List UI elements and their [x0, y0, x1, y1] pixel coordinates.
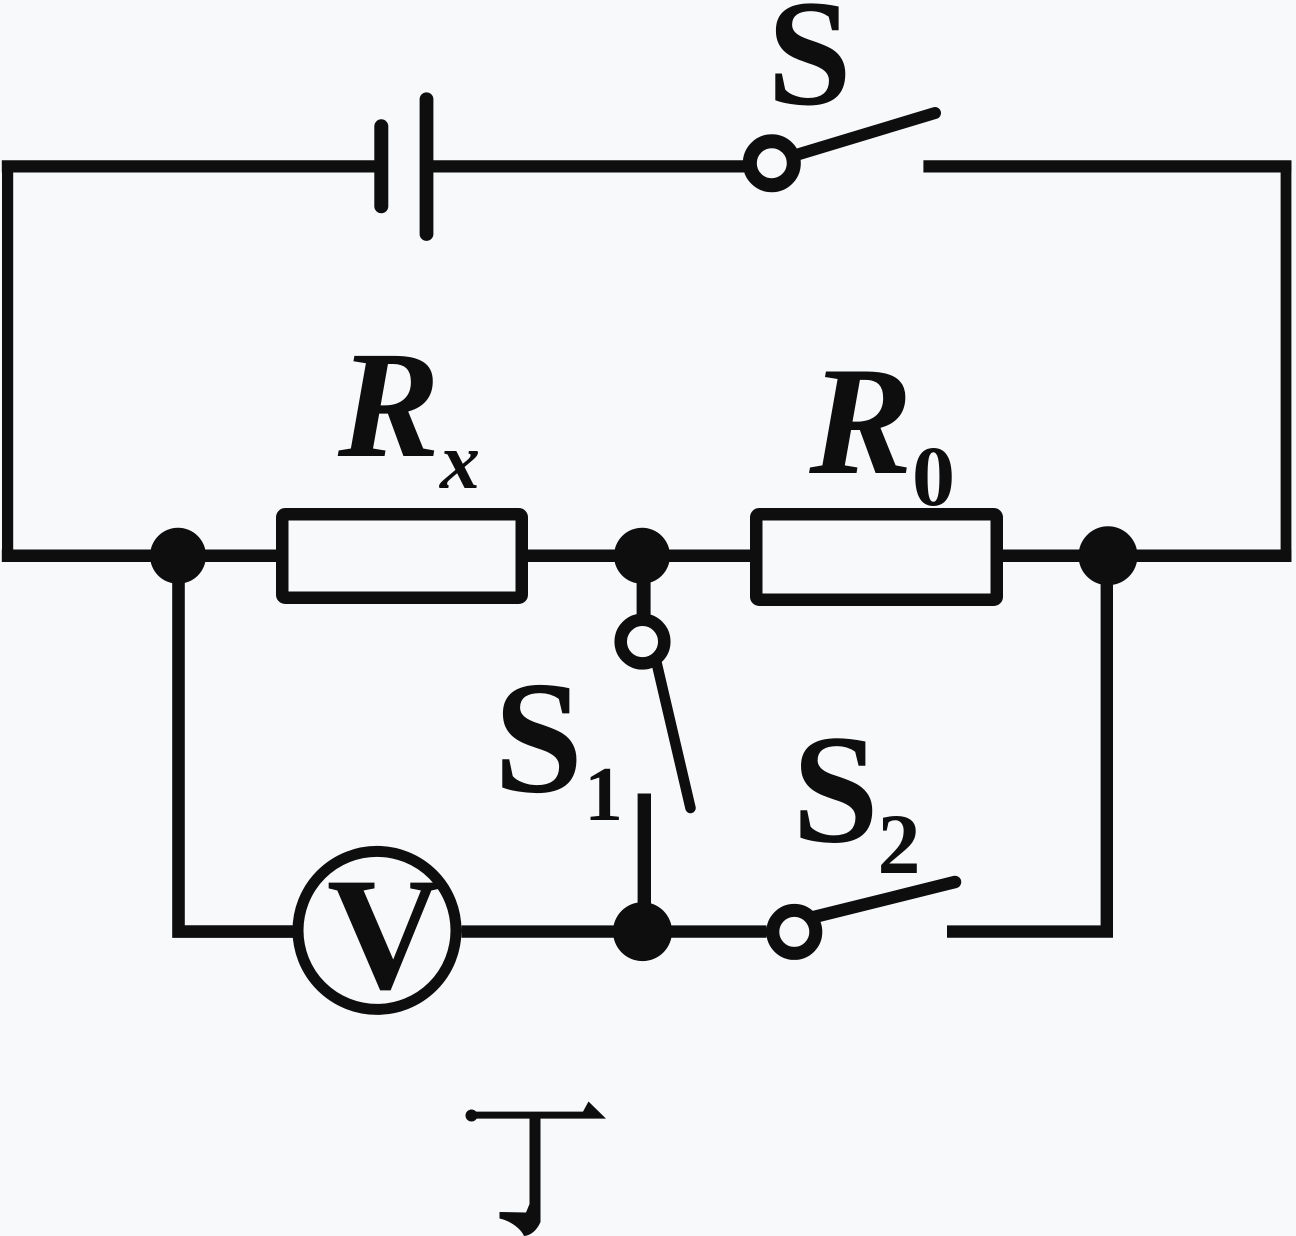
battery B1 positive plate (long)	[420, 92, 434, 241]
svg-text:2: 2	[878, 796, 921, 892]
battery B1 negative plate (short)	[374, 119, 388, 213]
svg-text:S: S	[767, 0, 852, 137]
svg-text:V: V	[327, 845, 443, 1023]
svg-text:S: S	[494, 649, 584, 827]
voltmeter V ring	[298, 851, 456, 1009]
switch S1 lever	[657, 663, 691, 809]
wire top-left segment	[2, 160, 377, 172]
wire switch S to top-right corner	[923, 160, 1291, 172]
switch S2 lever	[814, 882, 955, 917]
svg-text:R: R	[808, 335, 912, 507]
svg-text:0: 0	[912, 428, 955, 524]
wire bottom-right segment and right drop	[947, 560, 1107, 932]
switch S1 stub from node B	[637, 562, 651, 617]
svg-text:R: R	[337, 321, 440, 490]
switch S lever	[796, 113, 935, 155]
wire right vertical (top)	[1281, 161, 1292, 562]
node A (left junction)	[150, 528, 206, 584]
resistor R0 body	[756, 514, 997, 600]
node D (bottom junction)	[613, 902, 672, 961]
wire middle-right segment	[1002, 550, 1291, 563]
svg-text:1: 1	[584, 751, 623, 837]
resistor Rx body	[282, 514, 522, 598]
wire left drop and bottom-left segment	[179, 556, 294, 932]
switch S1 pivot circle	[621, 620, 665, 664]
wire voltmeter to node D	[462, 925, 767, 937]
svg-text:x: x	[439, 418, 480, 506]
wire battery to switch S	[433, 160, 744, 172]
node C (right junction)	[1079, 526, 1138, 585]
wire S1 throw to node D	[638, 794, 651, 933]
switch S pivot circle	[750, 141, 794, 185]
wire between Rx and R0	[527, 550, 751, 563]
label figure caption 丁 (CJK 'ding') drawn as path	[466, 1102, 607, 1236]
switch S2 pivot circle	[773, 910, 816, 953]
wire middle-left segment	[2, 550, 277, 563]
wire left vertical	[2, 161, 13, 562]
svg-text:S: S	[792, 703, 879, 876]
node B (middle junction)	[614, 528, 670, 584]
